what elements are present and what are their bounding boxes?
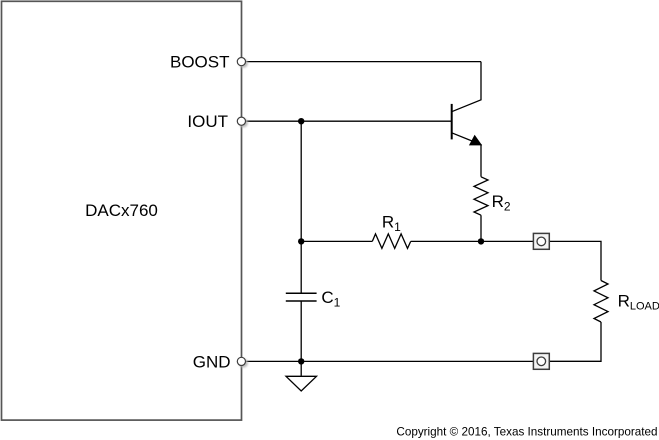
node at R2 bottom junction <box>478 238 484 244</box>
resistor RLOAD zigzag <box>594 281 608 323</box>
svg-text:Copyright © 2016, Texas Instru: Copyright © 2016, Texas Instruments Inco… <box>396 425 657 438</box>
transistor Q1 emitter arrow <box>470 136 481 145</box>
svg-text:GND: GND <box>193 352 231 371</box>
svg-text:IOUT: IOUT <box>187 112 228 131</box>
transistor Q1 collector wire <box>452 62 481 112</box>
pin IOUT terminal circle <box>237 117 248 127</box>
wire top connector to RLOAD top <box>549 241 601 280</box>
connector J1 (top terminal square) <box>533 233 549 249</box>
pin BOOST terminal circle <box>237 58 248 68</box>
wire mid node to R1 left <box>301 240 372 242</box>
ground stub <box>300 361 302 376</box>
resistor R1 zigzag <box>372 234 410 249</box>
transistor Q1 emitter wire <box>452 133 481 177</box>
wire GND run to bottom connector <box>245 360 533 362</box>
resistor R2 zigzag <box>474 177 488 215</box>
pin GND terminal circle <box>237 357 248 367</box>
svg-text:BOOST: BOOST <box>170 53 230 72</box>
wire C1 bottom plate to GND run <box>300 301 302 361</box>
ground symbol <box>286 376 317 391</box>
node at ground junction <box>298 358 304 364</box>
node at R1 left junction <box>298 238 304 244</box>
DAC box U1 DACx760 outline <box>2 1 242 420</box>
capacitor C1 top plate <box>286 292 317 294</box>
connector J2 (bottom terminal square) <box>533 353 549 369</box>
transistor Q1 base bar <box>451 104 453 139</box>
wire IOUT node down to C1 top plate <box>300 121 302 293</box>
wire BOOST to collector (top run) <box>245 61 481 63</box>
wire R2 bottom to mid node <box>480 215 482 241</box>
wire IOUT to transistor base <box>245 120 451 122</box>
wire RLOAD bottom to bottom connector <box>549 322 601 361</box>
node at IOUT junction <box>298 118 304 124</box>
wire R1 right to top connector <box>411 240 534 242</box>
capacitor C1 bottom plate <box>286 300 317 302</box>
svg-text:DACx760: DACx760 <box>85 201 158 220</box>
